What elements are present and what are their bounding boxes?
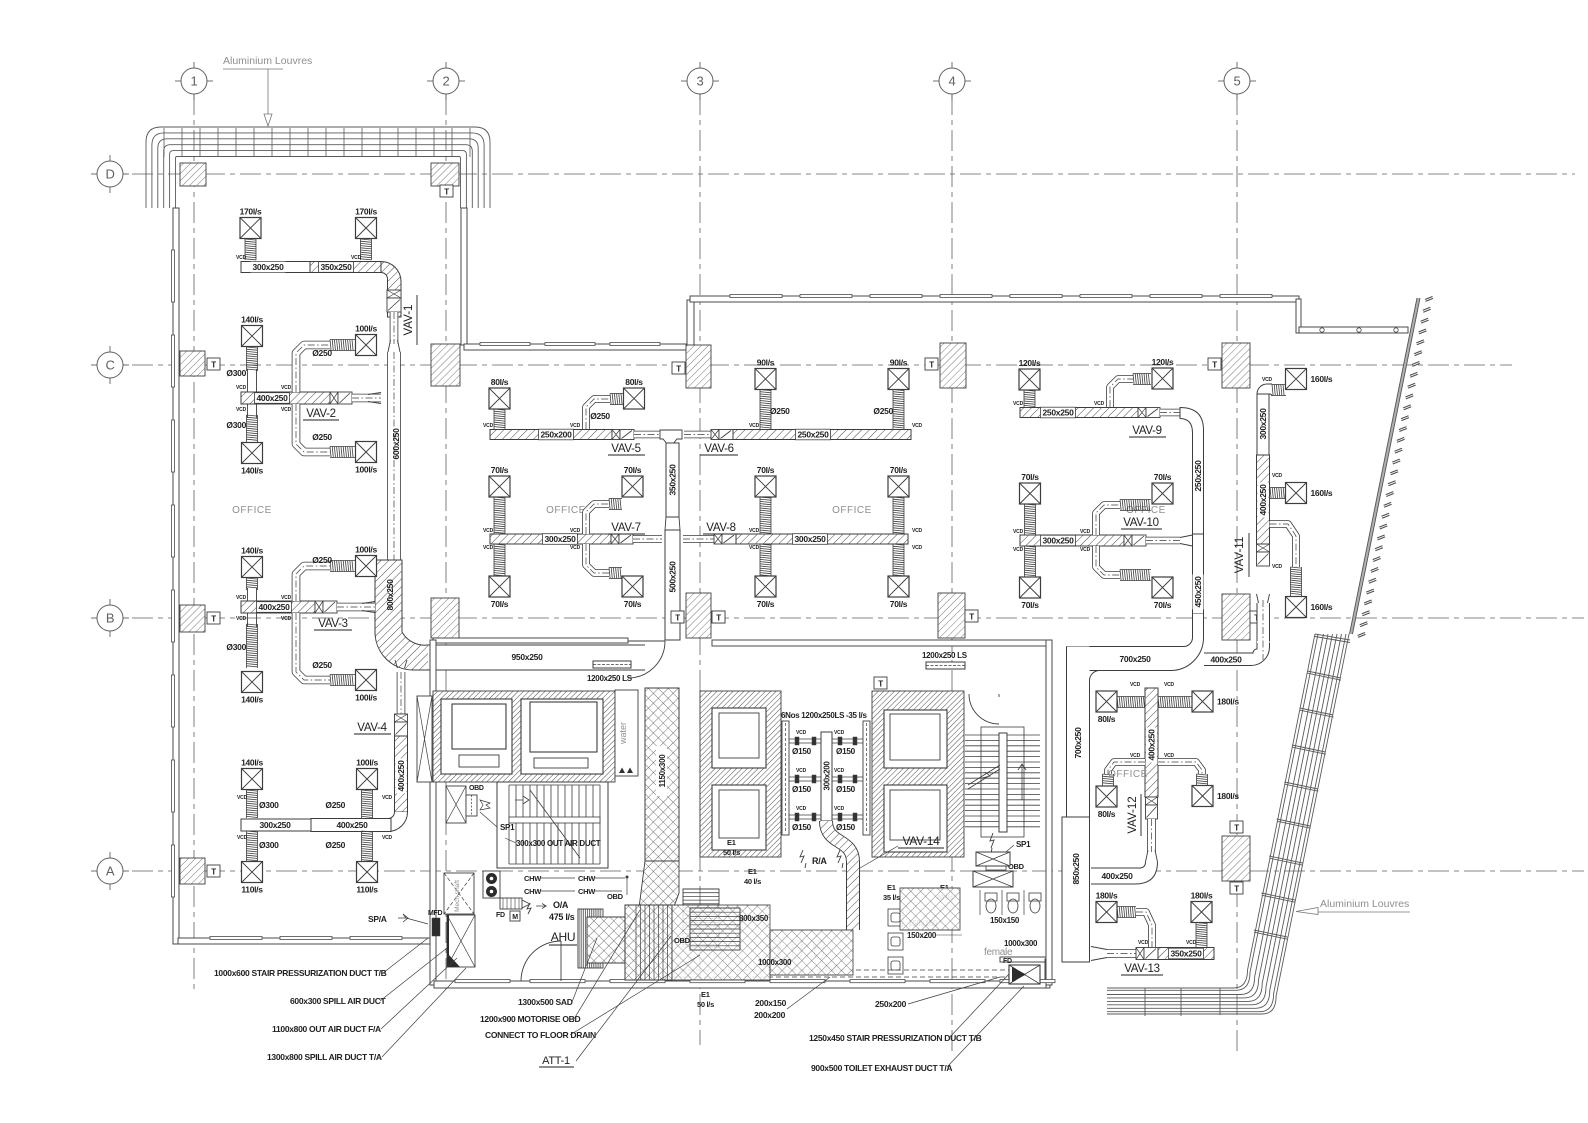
grid line B horizontal [96, 617, 1584, 619]
diffuser 70l/s [622, 476, 643, 497]
diffuser 70l/s [1152, 577, 1173, 598]
diffuser 70l/s [1020, 483, 1041, 504]
link [634, 431, 660, 439]
duct 250x250 [733, 430, 911, 440]
svg-text:VCD: VCD [483, 545, 494, 551]
svg-text:O/A: O/A [553, 900, 569, 910]
svg-text:T: T [444, 188, 449, 197]
svg-text:VAV-13: VAV-13 [1124, 963, 1160, 975]
svg-text:OBD: OBD [674, 936, 691, 945]
stair east cut marks [968, 765, 1000, 789]
svg-text:170l/s: 170l/s [240, 207, 262, 217]
flex west [1117, 697, 1145, 708]
shaft 1150x300 crosshatched [645, 688, 679, 861]
diffuser 110l/s [242, 862, 263, 883]
flex [609, 568, 622, 579]
svg-text:250x200: 250x200 [541, 430, 573, 440]
grid bubble C [97, 352, 123, 378]
svg-text:850x250: 850x250 [1071, 853, 1081, 885]
duct corner VAV-1 [381, 262, 401, 318]
duct 850x250 vertical [1062, 817, 1090, 962]
filter damper FD M [500, 898, 522, 909]
svg-text:Ø250: Ø250 [312, 432, 332, 442]
svg-text:Ø250: Ø250 [325, 800, 345, 810]
wall office north side west [464, 344, 694, 350]
svg-text:T: T [1234, 885, 1239, 894]
VAV-1 flare [388, 340, 400, 352]
svg-text:T: T [211, 615, 216, 624]
elbow 80l/s [586, 399, 610, 429]
duct 350x250 VAV-1 [310, 262, 381, 273]
svg-text:VCD: VCD [1272, 473, 1283, 479]
diffuser 70l/s [1152, 483, 1173, 504]
svg-text:OBD: OBD [607, 892, 624, 901]
VAV-12 corner to 400x250 [1091, 862, 1158, 884]
flex [494, 409, 505, 429]
flex VAV-2 up [247, 347, 258, 371]
svg-text:70l/s: 70l/s [624, 465, 642, 475]
thermostat [874, 677, 887, 689]
svg-text:OFFICE: OFFICE [832, 505, 872, 516]
svg-text:1300x500 SAD: 1300x500 SAD [518, 997, 573, 1007]
VAV-5 box [612, 430, 620, 440]
svg-text:VAV-9: VAV-9 [1132, 425, 1161, 437]
flex [893, 390, 904, 430]
T box 3-B east redraw [712, 611, 725, 623]
svg-text:Ø250: Ø250 [873, 406, 893, 416]
T box 5-C [1208, 358, 1221, 370]
diffuser 100l/s lower [356, 442, 377, 463]
transition [1180, 535, 1193, 546]
diffuser 90l/s left [755, 369, 776, 390]
flex [1270, 488, 1286, 499]
diffuser 120l/s [1019, 369, 1040, 390]
svg-text:900x500 TOILET EXHAUST DUCT T/: 900x500 TOILET EXHAUST DUCT T/A [811, 1063, 952, 1073]
svg-text:Ø150: Ø150 [836, 823, 856, 832]
diffuser 140l/s up [242, 557, 263, 578]
duct 350x250 VAV-13 [1158, 948, 1214, 960]
svg-text:200x150: 200x150 [755, 998, 787, 1008]
svg-text:400x250: 400x250 [396, 760, 406, 792]
wall mullions [480, 343, 660, 346]
svg-text:OFFICE: OFFICE [546, 505, 586, 516]
flex [760, 390, 771, 430]
T box 5-A south [1230, 882, 1243, 894]
svg-text:T: T [969, 613, 974, 622]
column 1-B [180, 605, 205, 632]
svg-text:100l/s: 100l/s [355, 465, 377, 475]
flex to 170l/s west [245, 239, 256, 260]
ATT-1 crosshatch floor area [672, 905, 770, 980]
duct run [1108, 762, 1145, 774]
svg-text:VCD: VCD [912, 528, 923, 534]
wall bottom mullions [210, 937, 402, 940]
T box 4-B [965, 610, 978, 622]
svg-text:Ø250: Ø250 [312, 348, 332, 358]
wall below louvre right arm [461, 208, 467, 345]
duct 600x250 run [387, 352, 401, 560]
wall left exterior [173, 208, 179, 944]
duct 400x250 VAV-4 vertical [395, 736, 408, 812]
svg-text:350x250: 350x250 [668, 464, 678, 496]
svg-text:1150x300: 1150x300 [658, 754, 667, 788]
flex to 170l/s east [361, 239, 372, 260]
svg-text:150x150: 150x150 [990, 916, 1020, 925]
svg-text:Ø150: Ø150 [792, 823, 812, 832]
svg-text:VCD: VCD [1272, 564, 1283, 570]
svg-text:100l/s: 100l/s [356, 758, 378, 768]
shaft with OBD west [446, 786, 466, 823]
svg-text:Ø250: Ø250 [312, 660, 332, 670]
VAV-2 elbow down [296, 404, 330, 452]
duct run [1107, 949, 1136, 958]
washbasins male [888, 909, 903, 974]
svg-text:OFFICE: OFFICE [1108, 769, 1148, 780]
lift car west 2 [521, 699, 603, 774]
grid line C horizontal [96, 364, 1512, 366]
svg-text:70l/s: 70l/s [1021, 600, 1039, 610]
svg-text:VCD: VCD [483, 528, 494, 534]
diffuser 180l/s left [1096, 902, 1117, 923]
AHU unit louvre panel [578, 909, 601, 968]
grid bubble 3 [687, 68, 713, 94]
lift car east 1 [884, 710, 947, 768]
flex 100l/s down [330, 675, 355, 686]
duct corner 450 to 700x250 [1067, 614, 1204, 671]
VAV-3 elbow up [296, 566, 330, 601]
aluminium louvre diagonal upper wall [1351, 298, 1419, 634]
svg-text:VCD: VCD [236, 595, 247, 601]
svg-text:VCD: VCD [1138, 940, 1149, 946]
svg-text:FD: FD [496, 912, 505, 919]
toilet dashed exhaust 250x200 [640, 969, 1009, 971]
svg-text:CHW: CHW [524, 887, 542, 896]
transition [1146, 850, 1158, 862]
T box 4-C [925, 358, 938, 370]
svg-text:70l/s: 70l/s [890, 465, 908, 475]
svg-text:VCD: VCD [281, 595, 292, 601]
svg-text:B: B [106, 611, 114, 626]
svg-text:70l/s: 70l/s [1154, 472, 1172, 482]
svg-text:VCD: VCD [236, 385, 247, 391]
diffuser 100l/s up [356, 556, 377, 577]
transition 350-500 [665, 517, 680, 530]
svg-text:450x250: 450x250 [1193, 576, 1203, 608]
svg-text:70l/s: 70l/s [890, 599, 908, 609]
wall [1000, 957, 1046, 962]
VAV-11 box [1257, 544, 1270, 552]
mech shaft upper [444, 873, 474, 914]
flex [1197, 774, 1208, 785]
stair arrow [515, 796, 529, 804]
VAV-4 box [395, 714, 408, 722]
svg-text:1000x300: 1000x300 [1004, 939, 1038, 948]
wall circles [1320, 328, 1398, 332]
flex [760, 544, 771, 576]
T box 2-D [440, 185, 453, 197]
svg-text:VCD: VCD [796, 730, 807, 736]
column 3-B [686, 593, 711, 638]
svg-text:SP1: SP1 [500, 823, 515, 832]
svg-text:800x250: 800x250 [385, 579, 395, 611]
Y junction [660, 430, 682, 445]
svg-text:VCD: VCD [1164, 682, 1175, 688]
svg-text:VCD: VCD [382, 835, 393, 841]
VAV-2 link duct [352, 394, 381, 403]
lift block east hatched [872, 691, 964, 857]
svg-text:E1: E1 [727, 838, 736, 847]
diffuser 70l/s [755, 576, 776, 597]
T box 1-C [207, 358, 220, 370]
toilet wide grille 1000x300 [973, 871, 1013, 887]
VAV-2 elbow up [296, 345, 330, 392]
svg-text:VCD: VCD [1186, 940, 1197, 946]
VAV-3 box [315, 601, 323, 613]
duct 950x250 horizontal [375, 632, 428, 670]
VAV-3 link duct [337, 603, 375, 612]
svg-text:VCD: VCD [912, 423, 923, 429]
VAV-3 elbow down [296, 613, 330, 680]
lift car east 2 [884, 785, 947, 852]
flex [1024, 390, 1035, 407]
svg-text:E1: E1 [887, 883, 896, 892]
svg-text:T: T [878, 680, 883, 689]
svg-text:VCD: VCD [483, 423, 494, 429]
svg-text:600x250: 600x250 [391, 428, 401, 460]
svg-text:M: M [512, 914, 518, 921]
diffuser 110l/s [357, 862, 378, 883]
duct corner VAV-9 [1180, 408, 1204, 535]
svg-text:CHW: CHW [524, 874, 542, 883]
linear slot grill [926, 662, 965, 669]
svg-text:VCD: VCD [1262, 377, 1273, 383]
louvre fins upper diagonal [1358, 297, 1434, 638]
svg-text:VCD: VCD [570, 528, 581, 534]
svg-text:VCD: VCD [382, 795, 393, 801]
svg-text:1000x300: 1000x300 [758, 958, 792, 967]
diffuser 180l/s right [1191, 902, 1212, 923]
wall left mullions [172, 250, 175, 897]
svg-text:180l/s: 180l/s [1217, 791, 1239, 801]
flex [1120, 570, 1151, 581]
svg-text:VCD: VCD [749, 423, 760, 429]
flex VAV-3 up [247, 578, 258, 590]
svg-text:80l/s: 80l/s [491, 377, 509, 387]
svg-text:VCD: VCD [796, 768, 807, 774]
svg-text:300x250: 300x250 [795, 534, 827, 544]
svg-text:6Nos 1200x250LS -35 l/s: 6Nos 1200x250LS -35 l/s [781, 711, 867, 720]
svg-text:5: 5 [1234, 74, 1241, 89]
transition [362, 602, 375, 613]
flex [893, 497, 904, 534]
svg-text:VCD: VCD [1013, 401, 1024, 407]
grid line 2 vertical [445, 94, 447, 990]
stair east up arrow [1018, 764, 1026, 800]
svg-text:3: 3 [697, 74, 704, 89]
svg-text:VCD: VCD [1130, 753, 1141, 759]
diffuser 180l/s [1192, 786, 1213, 807]
diffuser 70l/s [888, 576, 909, 597]
grid bubble 2 [433, 68, 459, 94]
shaft left of lifts [417, 696, 432, 782]
svg-text:180l/s: 180l/s [1191, 891, 1213, 901]
svg-text:VCD: VCD [834, 806, 845, 812]
S-duct stair pressurization [826, 821, 853, 930]
T box 3-B west redraw [671, 611, 684, 623]
svg-text:1100x800 OUT AIR DUCT F/A: 1100x800 OUT AIR DUCT F/A [272, 1024, 381, 1034]
diffuser 70l/s [888, 476, 909, 497]
svg-text:200x200: 200x200 [754, 1010, 786, 1020]
duct [1257, 455, 1270, 544]
svg-text:E1: E1 [701, 990, 710, 999]
duct 300x250 VAV-1 [241, 262, 310, 273]
svg-text:50 l/s: 50 l/s [697, 1000, 714, 1009]
diffuser 100l/s [357, 769, 378, 790]
svg-text:120l/s: 120l/s [1019, 358, 1041, 368]
flex [893, 544, 904, 576]
flex [494, 497, 505, 534]
toilet grille with X female [976, 852, 1010, 866]
svg-text:Ø250: Ø250 [312, 555, 332, 565]
svg-text:VCD: VCD [834, 730, 845, 736]
svg-text:400x250: 400x250 [1147, 729, 1157, 761]
diffuser 70l/s [489, 476, 510, 497]
diffuser 80l/s [1096, 691, 1117, 712]
female WC fixtures [985, 893, 1041, 913]
svg-text:250x250: 250x250 [1193, 460, 1203, 492]
svg-text:ATT-1: ATT-1 [542, 1055, 570, 1067]
elbow [1110, 379, 1133, 407]
svg-text:VCD: VCD [281, 407, 292, 413]
lift car mid 1 [712, 708, 766, 768]
svg-text:1200x250 LS: 1200x250 LS [922, 651, 968, 660]
svg-text:170l/s: 170l/s [355, 207, 377, 217]
diffuser 180l/s [1192, 691, 1213, 712]
svg-text:VCD: VCD [281, 385, 292, 391]
VAV-11 vertical duct lower link [1257, 603, 1270, 643]
svg-text:VCD: VCD [570, 545, 581, 551]
flex [1103, 774, 1114, 786]
link [683, 535, 714, 543]
bottom wall mullions [455, 980, 1055, 983]
svg-text:140l/s: 140l/s [241, 758, 263, 768]
svg-text:180l/s: 180l/s [1096, 891, 1118, 901]
svg-text:VAV-7: VAV-7 [611, 522, 640, 534]
transition [395, 660, 407, 668]
lift block west hatched walls [433, 691, 615, 782]
svg-text:100l/s: 100l/s [355, 545, 377, 555]
svg-text:Mech shaft: Mech shaft [454, 880, 461, 912]
diffuser 160l/s low [1286, 597, 1307, 618]
stair east center rail [999, 733, 1007, 832]
VAV-12 box [1146, 797, 1158, 805]
flare from 850 duct [1091, 947, 1107, 961]
svg-text:700x250: 700x250 [1073, 727, 1083, 759]
VAV-9 box [1138, 408, 1146, 418]
svg-text:Aluminium Louvres: Aluminium Louvres [223, 55, 312, 67]
svg-text:400x250: 400x250 [1258, 484, 1268, 516]
grid line 1 vertical [193, 94, 195, 990]
svg-text:300x250: 300x250 [545, 534, 577, 544]
svg-text:100l/s: 100l/s [355, 324, 377, 334]
core corridor door arc [628, 641, 665, 678]
flare [1257, 594, 1270, 603]
SP1 lightning east [990, 833, 994, 854]
svg-text:120l/s: 120l/s [1152, 357, 1174, 367]
svg-text:VCD: VCD [1164, 753, 1175, 759]
svg-text:300x250: 300x250 [1258, 408, 1268, 440]
aluminium louvre band top-left [146, 127, 490, 208]
FD fan box [1009, 965, 1040, 984]
riser bar west [782, 721, 789, 835]
svg-text:90l/s: 90l/s [890, 358, 908, 368]
stair west cut line [530, 790, 580, 858]
svg-text:T: T [1234, 824, 1239, 833]
duct 400x250 VAV-4 horizontal [311, 819, 391, 832]
flex [610, 394, 623, 405]
svg-text:100l/s: 100l/s [355, 693, 377, 703]
svg-text:500x250: 500x250 [668, 561, 678, 593]
duct 250x200 [490, 430, 612, 440]
svg-text:400x250: 400x250 [259, 602, 291, 612]
svg-text:Ø250: Ø250 [590, 411, 610, 421]
elbow [1270, 524, 1297, 567]
diffuser 160l/s mid [1286, 483, 1307, 504]
VAV-8 box [714, 534, 722, 544]
duct run [1136, 912, 1152, 947]
svg-text:1200x900 MOTORISE OBD: 1200x900 MOTORISE OBD [480, 1014, 580, 1024]
flex VAV-4 down-right [362, 831, 373, 862]
svg-text:70l/s: 70l/s [491, 599, 509, 609]
svg-text:R/A: R/A [812, 856, 827, 866]
crosshatch female duct [900, 888, 960, 930]
flex 100l/s lower [330, 447, 355, 458]
svg-text:300x300 OUT AIR DUCT: 300x300 OUT AIR DUCT [516, 839, 601, 848]
VAV-2 box [330, 392, 338, 404]
duct run [1158, 762, 1202, 774]
duct 250x250 VAV-9 [1020, 408, 1138, 418]
svg-text:1300x800 SPILL AIR DUCT T/A: 1300x800 SPILL AIR DUCT T/A [267, 1052, 382, 1062]
column 1-D [180, 163, 206, 186]
VAV-1 drop [390, 312, 399, 344]
diffuser 140l/s down [242, 672, 263, 693]
diffuser 120l/s [1152, 368, 1173, 389]
aluminium louvre diagonal lower band [1107, 634, 1350, 1016]
diffuser 160l/s top [1286, 369, 1307, 390]
wall [430, 640, 436, 985]
flex [1291, 567, 1302, 596]
svg-text:Ø150: Ø150 [792, 785, 812, 794]
diffuser 90l/s right [888, 369, 909, 390]
svg-text:VAV-4: VAV-4 [357, 722, 387, 734]
svg-text:E1: E1 [748, 867, 757, 876]
diffuser 100l/s down [356, 670, 377, 691]
svg-text:VCD: VCD [1094, 401, 1105, 407]
column 3-C [686, 345, 711, 388]
svg-text:VAV-2: VAV-2 [306, 408, 335, 420]
diffuser 170l/s west [240, 218, 261, 239]
column 2-D [431, 163, 459, 186]
svg-text:VAV-8: VAV-8 [706, 522, 735, 534]
duct 400x250 VAV-2 [241, 392, 330, 404]
wall step near grid 5 [1296, 299, 1301, 333]
VAV-7 box [611, 534, 619, 544]
flex [1117, 907, 1136, 918]
svg-text:140l/s: 140l/s [241, 546, 263, 556]
grid line 3 vertical [699, 94, 701, 1045]
diffuser 170l/s east [356, 218, 377, 239]
svg-text:A: A [106, 864, 115, 879]
